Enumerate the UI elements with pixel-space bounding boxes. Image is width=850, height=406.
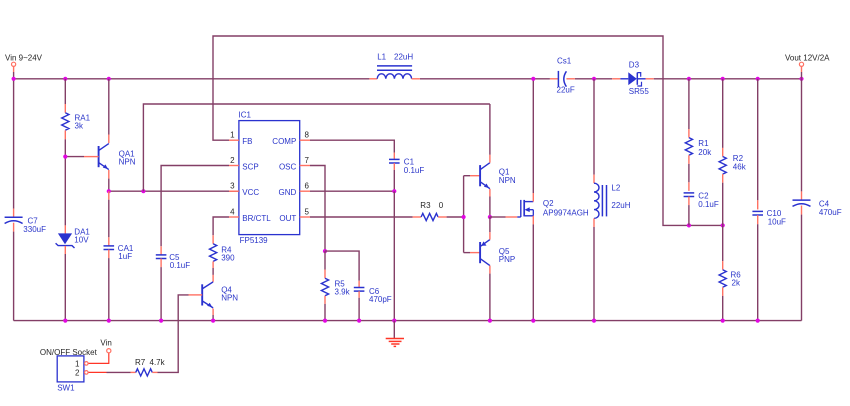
node: switch/diode rail junctions xyxy=(592,77,596,81)
wire VCC line (pin 3) xyxy=(109,190,239,192)
svg-text:D3: D3 xyxy=(629,61,640,70)
svg-text:COMP: COMP xyxy=(272,137,296,146)
capacitor C5 0.1uF xyxy=(160,246,162,255)
bottom ground rail xyxy=(14,320,802,322)
top power rail from Vin to Vout xyxy=(14,78,370,80)
svg-text:OUT: OUT xyxy=(279,214,296,223)
pin 4 BR/CTL xyxy=(229,216,239,218)
svg-text:5: 5 xyxy=(305,208,310,217)
svg-text:NPN: NPN xyxy=(221,293,238,302)
svg-text:NPN: NPN xyxy=(119,157,136,166)
ground xyxy=(393,321,395,339)
svg-text:R1: R1 xyxy=(698,139,709,148)
wire Q2 source to ground rail xyxy=(532,216,534,225)
transistor Q1 NPN xyxy=(479,165,481,186)
pin 6 GND xyxy=(300,190,310,192)
controller IC1 FP5139 xyxy=(239,121,300,235)
resistor R1 20k xyxy=(688,79,690,129)
svg-text:Q1: Q1 xyxy=(499,167,510,176)
transistor Q5 PNP xyxy=(479,242,481,263)
resistor R5 3.9k xyxy=(324,251,326,269)
svg-text:Vin: Vin xyxy=(100,338,111,347)
resistor R7 4.7k xyxy=(131,371,136,373)
capacitor C4 470uF xyxy=(801,79,803,192)
svg-text:390: 390 xyxy=(221,253,235,262)
svg-text:6: 6 xyxy=(305,182,310,191)
SW1 pin 1 wire to Vin tap xyxy=(88,353,109,364)
svg-text:470pF: 470pF xyxy=(369,295,392,304)
inductor L1 22uH xyxy=(369,78,377,80)
svg-text:22uH: 22uH xyxy=(394,53,413,62)
capacitor C6 470pF xyxy=(325,251,359,281)
capacitor C1 0.1uF xyxy=(393,153,395,160)
resistor R6 2k xyxy=(722,225,724,261)
svg-text:GND: GND xyxy=(279,188,297,197)
svg-text:FB: FB xyxy=(242,137,252,146)
svg-text:AP9974AGH: AP9974AGH xyxy=(543,209,589,218)
node: bottom rail junctions xyxy=(63,319,67,323)
svg-text:2: 2 xyxy=(75,369,80,378)
diode D3 SR55 schottky xyxy=(612,78,620,80)
wire Vin column / capacitor C7 branch xyxy=(13,79,15,209)
svg-text:4.7k: 4.7k xyxy=(150,358,166,367)
svg-text:NPN: NPN xyxy=(499,176,516,185)
transistor Q2 AP9974AGH MOSFET xyxy=(517,216,521,218)
svg-text:0.1uF: 0.1uF xyxy=(698,200,719,209)
svg-text:Q2: Q2 xyxy=(543,199,554,208)
svg-text:Cs1: Cs1 xyxy=(557,57,572,66)
svg-text:L2: L2 xyxy=(611,184,620,193)
svg-text:R7: R7 xyxy=(135,358,146,367)
svg-text:R3: R3 xyxy=(420,201,431,210)
resistor R3 0 xyxy=(413,216,422,218)
transistor Q4 NPN xyxy=(212,275,214,282)
wire COMP (pin 8) to C1 xyxy=(310,140,394,152)
wire Q2 drain to switch node xyxy=(532,193,534,202)
svg-text:1uF: 1uF xyxy=(118,252,132,261)
capacitor CA1 1uF xyxy=(108,191,110,200)
pin 8 COMP xyxy=(300,139,310,141)
svg-text:Vout 12V/2A: Vout 12V/2A xyxy=(785,54,830,63)
wire VCC riser to Q1 collector feed xyxy=(143,104,490,191)
svg-text:3.9k: 3.9k xyxy=(335,288,351,297)
resistor RA1 3k xyxy=(64,79,66,104)
svg-text:22uH: 22uH xyxy=(611,201,630,210)
transistor QA1 NPN xyxy=(108,79,110,135)
wire OSC (pin 7) to R5/C6 xyxy=(310,166,325,252)
capacitor C2 0.1uF xyxy=(688,182,690,191)
svg-text:IC1: IC1 xyxy=(239,110,252,119)
svg-text:VCC: VCC xyxy=(242,188,259,197)
wire driver base rail xyxy=(463,176,465,253)
pin 5 OUT xyxy=(300,216,310,218)
svg-text:1: 1 xyxy=(75,359,80,368)
svg-text:OSC: OSC xyxy=(279,163,297,172)
svg-text:4: 4 xyxy=(230,208,235,217)
capacitor C7 xyxy=(5,216,23,218)
svg-text:L1: L1 xyxy=(377,53,386,62)
capacitor Cs1 22uF xyxy=(550,78,559,80)
pin 3 VCC xyxy=(229,190,239,192)
svg-text:SR55: SR55 xyxy=(629,87,650,96)
svg-text:22uF: 22uF xyxy=(557,86,575,95)
svg-text:3k: 3k xyxy=(75,122,84,131)
svg-text:0: 0 xyxy=(439,201,444,210)
wire GND (pin 6) to ground column xyxy=(310,190,394,192)
pin 2 SCP xyxy=(229,165,239,167)
pin 1 FB xyxy=(229,139,239,141)
capacitor C10 10uF xyxy=(757,79,759,201)
wire SCP (pin 2) to C5 xyxy=(161,166,229,247)
svg-text:20k: 20k xyxy=(698,148,712,157)
svg-text:10uF: 10uF xyxy=(768,218,786,227)
svg-text:PNP: PNP xyxy=(499,255,515,264)
svg-text:46k: 46k xyxy=(733,162,747,171)
svg-text:BR/CTL: BR/CTL xyxy=(242,214,271,223)
svg-text:3: 3 xyxy=(230,182,235,191)
svg-text:1: 1 xyxy=(230,131,235,140)
wire BR/CTL (pin 4) down to R4 xyxy=(213,217,229,235)
wire driver output to Q2 gate xyxy=(490,216,506,218)
svg-text:Vin 9~24V: Vin 9~24V xyxy=(5,54,43,63)
wire Q4 base to R7 (crosses ground rail) xyxy=(158,295,189,373)
svg-text:7: 7 xyxy=(305,156,310,165)
wire QA1 base to RA1/DA1 node xyxy=(65,156,84,158)
inductor L2 22uH xyxy=(593,79,595,175)
resistor R2 46k xyxy=(722,79,724,148)
svg-text:2k: 2k xyxy=(732,278,741,287)
SW1 pin 2 wire to R7 xyxy=(88,371,106,373)
wire feedback node line xyxy=(689,224,723,226)
svg-text:FP5139: FP5139 xyxy=(240,236,269,245)
svg-text:2: 2 xyxy=(230,156,235,165)
svg-text:SCP: SCP xyxy=(242,163,258,172)
svg-text:330uF: 330uF xyxy=(23,225,46,234)
resistor R4 390 xyxy=(212,235,214,244)
svg-text:SW1: SW1 xyxy=(57,383,75,392)
wire FB (pin 1) feedback loop to divider xyxy=(213,36,689,225)
pin 7 OSC xyxy=(300,165,310,167)
node: top rail junctions xyxy=(12,77,16,81)
svg-text:10V: 10V xyxy=(74,235,89,244)
zener diode DA1 10V xyxy=(64,157,66,226)
svg-text:470uF: 470uF xyxy=(819,208,842,217)
svg-text:0.1uF: 0.1uF xyxy=(404,166,425,175)
svg-text:8: 8 xyxy=(305,131,310,140)
svg-text:0.1uF: 0.1uF xyxy=(170,261,191,270)
wire OUT (pin 5) to R3 xyxy=(310,216,413,218)
